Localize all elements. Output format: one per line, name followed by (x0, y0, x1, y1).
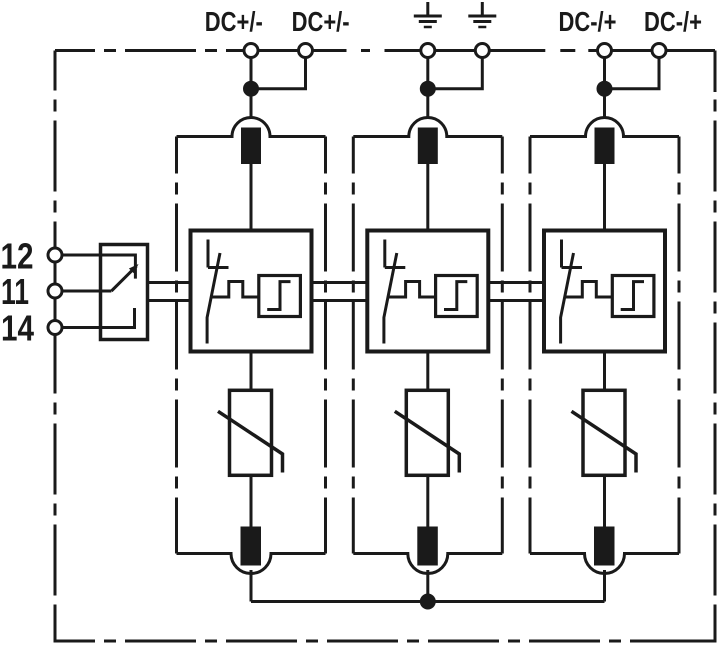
svg-text:11: 11 (1, 271, 29, 312)
svg-text:DC-/+: DC-/+ (644, 6, 702, 37)
svg-text:14: 14 (1, 308, 34, 349)
svg-text:DC+/-: DC+/- (205, 6, 263, 37)
svg-text:DC-/+: DC-/+ (559, 6, 617, 37)
svg-text:DC+/-: DC+/- (292, 6, 350, 37)
